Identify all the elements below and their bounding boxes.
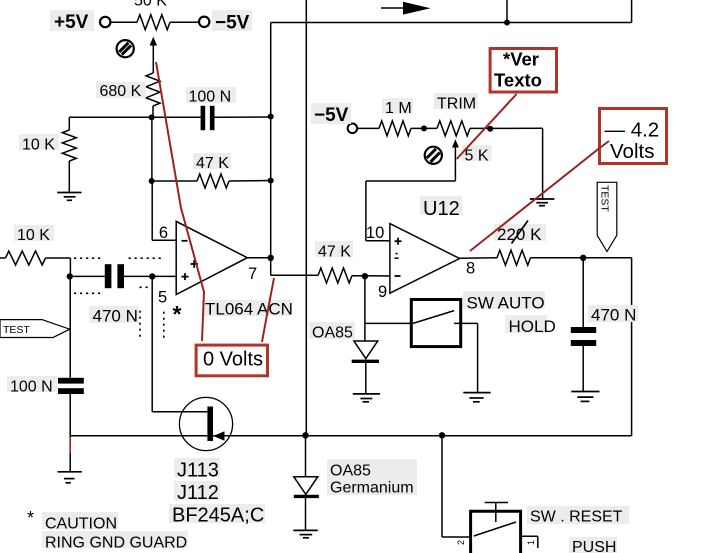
label PUSH xyxy=(569,537,617,553)
op-amp U12 xyxy=(390,224,460,294)
label J113 xyxy=(174,458,220,482)
switch SW AUTO HOLD box xyxy=(411,300,460,347)
transistor J113 JFET circle xyxy=(179,397,232,450)
label TRIM xyxy=(434,93,478,113)
label 47 K U12 xyxy=(315,241,353,261)
JFET arrow xyxy=(213,431,224,440)
svg-text:OA85: OA85 xyxy=(312,325,353,342)
svg-text:1: 1 xyxy=(526,540,536,545)
wire 680K to node xyxy=(152,106,154,117)
terminal -5V circle right xyxy=(348,124,358,134)
junction node pin5 xyxy=(149,273,155,279)
ground under 10 K xyxy=(57,193,81,201)
svg-text:J112: J112 xyxy=(177,482,219,504)
label OA85 Germanium xyxy=(327,459,417,497)
junction node output 7 xyxy=(268,255,274,261)
switch SW RESET box xyxy=(471,510,521,553)
wire cap to bottom rail and ground xyxy=(69,394,71,472)
red leader line 3 Ver Texto to TRIM xyxy=(457,94,517,159)
wire U12 output xyxy=(460,257,497,259)
junction node 470N right xyxy=(580,255,586,261)
TEST tag left xyxy=(0,320,70,338)
label -5V right xyxy=(311,103,351,126)
red annotations xyxy=(156,62,609,342)
label 1 M xyxy=(382,98,413,117)
svg-text:220 K: 220 K xyxy=(497,225,542,244)
ground TRIM right xyxy=(530,199,555,206)
red leader line 2 pin7 to 0 Volts xyxy=(262,278,274,342)
wiper arrow TRIM xyxy=(452,139,459,181)
capacitor 100 N top xyxy=(201,106,215,130)
potentiometer TRIM 5 K xyxy=(437,121,543,136)
ground under OA85 upper xyxy=(353,394,380,402)
svg-text:10 K: 10 K xyxy=(22,137,55,154)
wire to SW RESET xyxy=(442,435,471,537)
diode OA85 Germanium xyxy=(294,436,319,531)
svg-text:SW AUTO: SW AUTO xyxy=(467,294,545,313)
junction node 1M-TRIM xyxy=(421,125,427,131)
wire top shield rail y22.5 xyxy=(271,0,632,23)
label RING GND GUARD xyxy=(42,531,188,552)
svg-text:Germanium: Germanium xyxy=(330,480,414,497)
bottom rail wire y435.8 xyxy=(70,435,631,437)
trimmer screw symbol TRIM xyxy=(425,147,442,164)
resistor 220 K xyxy=(497,250,632,265)
svg-text:RING GND GUARD: RING GND GUARD xyxy=(45,535,187,552)
red mark wire to ground xyxy=(69,437,71,453)
svg-text:OA85: OA85 xyxy=(330,463,371,480)
svg-text:−5V: −5V xyxy=(314,105,349,126)
svg-text:BF245A;C: BF245A;C xyxy=(172,505,264,527)
capacitor 470 N right xyxy=(571,258,596,392)
svg-text:*: * xyxy=(173,301,182,327)
resistor 10 K input xyxy=(0,251,70,276)
ground under Germanium diode xyxy=(293,530,318,537)
junction node TRIM right xyxy=(487,126,493,132)
label -5V top xyxy=(212,10,252,34)
svg-text:*: * xyxy=(27,508,34,528)
svg-text:0 Volts: 0 Volts xyxy=(203,349,263,371)
label 470 N input xyxy=(89,306,139,326)
capacitor 470 N input xyxy=(70,264,176,288)
wire TRIM right to ground xyxy=(542,128,544,199)
wire horizontal node row y117 xyxy=(69,116,270,118)
label 220 K xyxy=(494,224,546,244)
svg-text:*Ver: *Ver xyxy=(503,49,539,70)
label U12 xyxy=(420,196,462,220)
svg-text:1 M: 1 M xyxy=(385,100,412,117)
terminal -5V circle xyxy=(199,17,209,27)
plus mark pin 5 xyxy=(182,273,189,280)
callout box Ver Texto xyxy=(490,49,556,93)
svg-text:5 K: 5 K xyxy=(465,148,489,165)
arrow symbol top cut xyxy=(381,2,431,15)
junction node 47K right xyxy=(268,178,274,184)
svg-text:TRIM: TRIM xyxy=(437,96,476,113)
SW RESET blade xyxy=(474,522,516,536)
label 680 K xyxy=(96,82,146,100)
callout box 4.2 Volts xyxy=(600,109,667,164)
svg-text:TL064 ACN: TL064 ACN xyxy=(205,300,293,319)
wire right column x631 xyxy=(631,258,633,436)
wiper arrow of 50 K xyxy=(150,37,157,73)
wire pin6 drop xyxy=(152,117,176,240)
label J112 xyxy=(174,481,220,504)
svg-text:CAUTION: CAUTION xyxy=(45,516,117,533)
label 100 N lower xyxy=(7,376,57,396)
svg-text:5: 5 xyxy=(158,289,167,307)
SW RESET plunger xyxy=(485,503,508,523)
svg-text:680 K: 680 K xyxy=(100,83,142,100)
red leader line 4 pin8 to 4.2 Volts xyxy=(470,141,609,252)
wire guard vertical x70 xyxy=(69,276,71,377)
label SW AUTO xyxy=(463,291,545,313)
ground under SW AUTO xyxy=(463,393,490,402)
wire 47K to pin 9 xyxy=(318,268,390,283)
red leader line 1 op-amp to 0 Volts xyxy=(156,62,204,341)
junction node pin 9 xyxy=(362,273,368,279)
junction node 680K bottom xyxy=(149,114,155,120)
svg-text:100 N: 100 N xyxy=(189,89,232,106)
svg-text:— 4.2: — 4.2 xyxy=(605,119,660,142)
wire top rail +5V to -5V xyxy=(111,21,199,23)
label SW . RESET xyxy=(527,506,629,526)
label 10 K upper-left xyxy=(19,134,59,154)
svg-text:TEST: TEST xyxy=(3,324,30,336)
diode OA85 upper xyxy=(352,341,379,394)
label 470 N right xyxy=(588,305,638,325)
junction node cap right xyxy=(268,114,274,120)
svg-text:100 N: 100 N xyxy=(10,379,53,396)
SW RESET right lead xyxy=(521,536,538,548)
svg-text:J113: J113 xyxy=(177,460,219,482)
svg-text:50 K: 50 K xyxy=(134,0,167,10)
label 5 K xyxy=(462,145,492,165)
svg-text:Volts: Volts xyxy=(610,140,654,163)
minus mark pin 9 xyxy=(395,275,401,277)
label BF245A;C xyxy=(169,504,265,527)
resistor 10 K upper-left xyxy=(62,117,76,192)
capacitor 100 N lower-left xyxy=(58,378,84,394)
guard ring dotted xyxy=(74,258,164,341)
label OA85 upper xyxy=(309,322,355,342)
label HOLD xyxy=(505,315,556,336)
ground under 470 N xyxy=(571,392,599,402)
svg-text:−5V: −5V xyxy=(215,13,250,34)
long vertical shield line x306 xyxy=(305,0,307,436)
label TL064 ACN xyxy=(202,300,293,319)
svg-text:TEST: TEST xyxy=(599,185,611,212)
TEST tag vertical xyxy=(597,182,617,251)
svg-text:8: 8 xyxy=(466,260,475,278)
plus mark mid (V+) xyxy=(191,260,199,268)
svg-text:SW . RESET: SW . RESET xyxy=(530,509,623,526)
label 10 K input xyxy=(14,225,54,244)
svg-text:10 K: 10 K xyxy=(17,227,50,244)
potentiometer 50 K xyxy=(137,15,170,30)
svg-text:470 N: 470 N xyxy=(93,307,138,326)
wire output pin 7 xyxy=(247,257,270,259)
junction node bottom x442 xyxy=(439,432,445,438)
red leader line 4 tip inside box xyxy=(597,141,609,150)
svg-text:9: 9 xyxy=(378,283,387,301)
black slash through 220 K xyxy=(512,221,529,244)
svg-text:47 K: 47 K xyxy=(196,155,229,172)
resistor 1 M xyxy=(357,121,437,136)
junction node top rail xyxy=(504,20,510,26)
wire gate drop x152 xyxy=(152,276,207,411)
vertical bus x270 xyxy=(271,23,318,276)
label 47 K feedback xyxy=(193,153,231,172)
svg-text:PUSH: PUSH xyxy=(572,539,616,553)
junction node input cap left xyxy=(67,273,73,279)
callout box 0 Volts xyxy=(196,345,267,376)
svg-text:10: 10 xyxy=(366,224,384,242)
resistor 680 K xyxy=(146,73,160,106)
power dots U12 xyxy=(395,254,399,259)
svg-text:+5V: +5V xyxy=(54,12,89,33)
svg-text:2: 2 xyxy=(456,540,466,545)
JFET gate bar xyxy=(207,407,213,442)
junction node bottom x305 xyxy=(302,432,308,438)
resistor 47 K feedback xyxy=(152,174,271,188)
plus mark pin 10 xyxy=(395,238,402,245)
svg-text:Texto: Texto xyxy=(494,70,542,91)
switch SW AUTO contacts xyxy=(413,311,478,393)
svg-text:6: 6 xyxy=(159,224,168,242)
wire pin9 node down to switch tee xyxy=(365,276,411,341)
svg-text:HOLD: HOLD xyxy=(509,317,556,336)
trimmer screw symbol top xyxy=(117,40,134,57)
op-amp U? TL064 xyxy=(176,221,247,294)
label +5V xyxy=(50,10,94,33)
label CAUTION xyxy=(42,512,118,533)
minus mark pin 6 xyxy=(182,240,188,242)
junction node 47K left xyxy=(149,178,155,184)
svg-text:U12: U12 xyxy=(423,198,460,220)
svg-text:470 N: 470 N xyxy=(591,306,636,325)
terminal +5V circle xyxy=(100,17,110,27)
ground lower-left xyxy=(58,472,82,483)
wire TRIM wiper to pin 10 xyxy=(366,181,456,241)
label 100 N top xyxy=(186,87,236,106)
svg-text:7: 7 xyxy=(248,265,257,283)
svg-text:47 K: 47 K xyxy=(318,244,351,261)
